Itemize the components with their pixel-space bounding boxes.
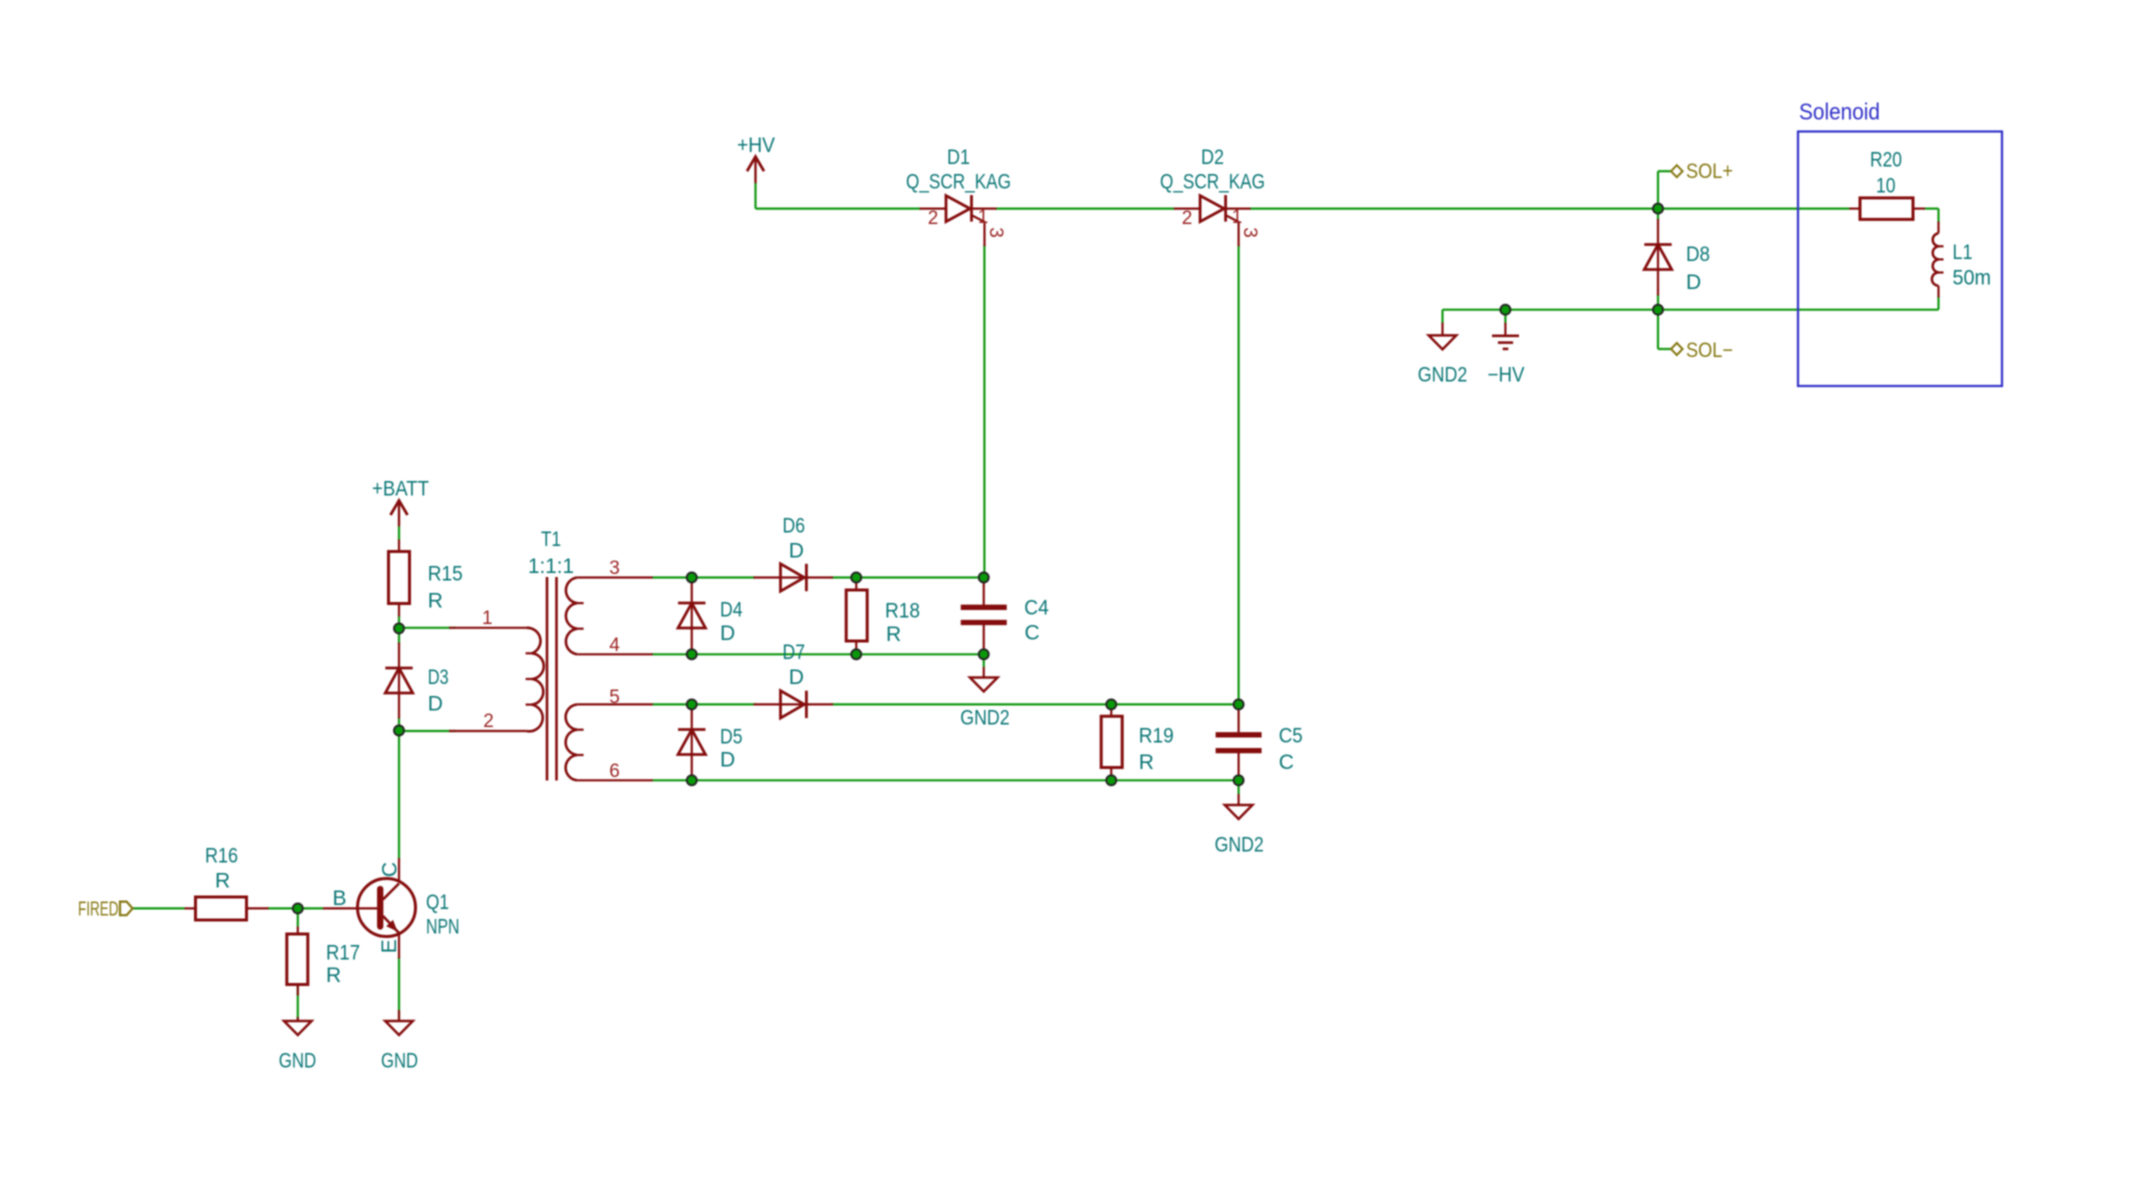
svg-text:Q1: Q1 (426, 891, 449, 914)
svg-text:D: D (428, 693, 443, 716)
svg-text:1: 1 (482, 608, 493, 629)
svg-text:50m: 50m (1953, 267, 1992, 290)
svg-text:C: C (379, 862, 402, 877)
svg-text:R18: R18 (885, 600, 920, 623)
svg-text:3: 3 (1239, 227, 1260, 238)
svg-text:D5: D5 (720, 726, 743, 749)
svg-text:R: R (326, 964, 341, 987)
svg-text:6: 6 (609, 761, 620, 782)
svg-text:R19: R19 (1139, 725, 1174, 748)
svg-text:D: D (720, 622, 735, 645)
svg-text:+HV: +HV (737, 134, 775, 157)
svg-text:C5: C5 (1279, 725, 1303, 748)
svg-text:C: C (1279, 751, 1294, 774)
svg-text:R: R (215, 870, 230, 893)
svg-text:D6: D6 (783, 515, 806, 538)
svg-text:1:1:1: 1:1:1 (528, 555, 574, 578)
svg-text:L1: L1 (1953, 241, 1973, 264)
svg-text:10: 10 (1876, 174, 1896, 197)
svg-text:R: R (1139, 751, 1154, 774)
svg-text:T1: T1 (541, 528, 561, 551)
svg-text:−HV: −HV (1488, 364, 1525, 387)
svg-text:NPN: NPN (426, 916, 460, 939)
svg-text:D4: D4 (720, 599, 743, 622)
svg-text:Q_SCR_KAG: Q_SCR_KAG (1160, 171, 1265, 194)
svg-text:3: 3 (609, 558, 620, 579)
svg-text:D1: D1 (947, 146, 970, 169)
svg-text:R: R (428, 589, 443, 612)
svg-text:R20: R20 (1870, 149, 1902, 172)
svg-text:+BATT: +BATT (372, 478, 429, 501)
svg-text:GND: GND (279, 1050, 317, 1073)
svg-text:D3: D3 (428, 666, 449, 689)
svg-text:D8: D8 (1686, 243, 1710, 266)
svg-text:R16: R16 (205, 845, 238, 868)
svg-text:R15: R15 (428, 562, 463, 585)
svg-text:GND2: GND2 (1418, 364, 1468, 387)
svg-text:SOL+: SOL+ (1686, 160, 1733, 183)
svg-text:E: E (378, 939, 401, 953)
svg-text:1: 1 (978, 207, 989, 228)
svg-text:3: 3 (985, 227, 1006, 238)
svg-text:R: R (886, 623, 901, 646)
svg-text:1: 1 (1232, 207, 1243, 228)
svg-text:GND2: GND2 (1215, 833, 1264, 856)
svg-text:GND: GND (381, 1050, 418, 1073)
svg-text:GND2: GND2 (960, 707, 1009, 730)
svg-text:D: D (789, 540, 804, 563)
svg-text:B: B (333, 887, 347, 910)
svg-text:C4: C4 (1024, 596, 1049, 619)
svg-text:D: D (720, 749, 735, 772)
svg-text:D: D (789, 666, 804, 689)
svg-text:D7: D7 (783, 641, 806, 664)
svg-text:Solenoid: Solenoid (1799, 99, 1880, 125)
svg-text:2: 2 (928, 208, 939, 229)
svg-text:2: 2 (483, 711, 494, 732)
svg-text:D: D (1686, 271, 1701, 294)
svg-text:5: 5 (609, 687, 620, 708)
svg-text:SOL−: SOL− (1686, 339, 1733, 362)
svg-text:R17: R17 (326, 942, 360, 965)
svg-text:Q_SCR_KAG: Q_SCR_KAG (906, 171, 1011, 194)
svg-text:2: 2 (1182, 208, 1193, 229)
svg-text:D2: D2 (1201, 146, 1224, 169)
svg-text:FIRED: FIRED (78, 898, 119, 920)
svg-text:C: C (1025, 622, 1040, 645)
svg-text:4: 4 (609, 635, 620, 656)
